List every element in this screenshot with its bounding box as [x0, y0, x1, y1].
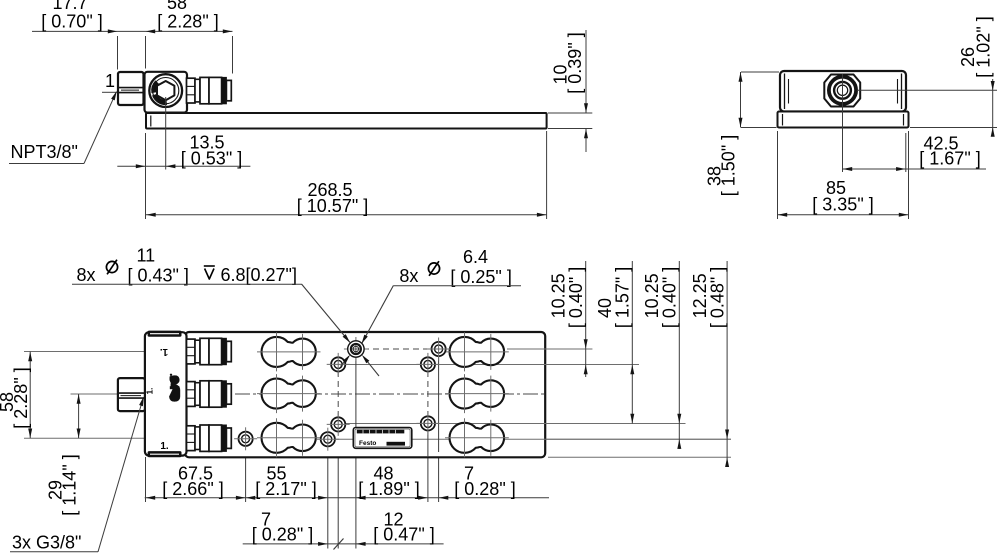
svg-text:[ 1.02" ]: [ 1.02" ] [974, 16, 994, 77]
svg-text:NPT3/8": NPT3/8" [11, 142, 78, 162]
svg-text:8x: 8x [399, 266, 418, 286]
svg-text:[ 1.57" ]: [ 1.57" ] [613, 267, 633, 328]
svg-text:6.8[0.27"]: 6.8[0.27"] [221, 265, 297, 285]
svg-text:[ 1.50" ]: [ 1.50" ] [719, 135, 739, 196]
svg-text:1.: 1. [146, 388, 155, 395]
svg-text:11: 11 [137, 246, 156, 266]
svg-text:[ 0.70" ]: [ 0.70" ] [41, 12, 102, 32]
svg-text:1.: 1. [160, 346, 169, 357]
svg-text:[ 0.25" ]: [ 0.25" ] [450, 267, 511, 287]
svg-text:[ 2.28" ]: [ 2.28" ] [11, 367, 31, 428]
svg-text:[ 0.28" ]: [ 0.28" ] [454, 479, 515, 499]
svg-text:[ 2.66" ]: [ 2.66" ] [162, 479, 223, 499]
svg-text:8x: 8x [77, 265, 96, 285]
svg-text:[ 0.43" ]: [ 0.43" ] [128, 266, 189, 286]
svg-text:[ 2.17" ]: [ 2.17" ] [255, 479, 316, 499]
svg-text:[ 3.35" ]: [ 3.35" ] [812, 195, 873, 215]
svg-text:6.4: 6.4 [463, 247, 488, 267]
svg-text:[ 0.53" ]: [ 0.53" ] [181, 148, 242, 168]
svg-text:[ 1.67" ]: [ 1.67" ] [919, 149, 980, 169]
svg-text:[ 0.48" ]: [ 0.48" ] [708, 267, 728, 328]
svg-text:[ 2.28" ]: [ 2.28" ] [157, 12, 218, 32]
svg-text:[ 1.89" ]: [ 1.89" ] [358, 479, 419, 499]
svg-text:[ 0.40" ]: [ 0.40" ] [660, 267, 680, 328]
svg-text:1: 1 [105, 71, 115, 91]
svg-text:[ 0.47" ]: [ 0.47" ] [373, 524, 434, 544]
svg-text:[ 0.28" ]: [ 0.28" ] [252, 524, 313, 544]
svg-text:[ 1.14" ]: [ 1.14" ] [60, 454, 80, 515]
svg-text:[ 10.57" ]: [ 10.57" ] [297, 196, 368, 216]
svg-text:Festo: Festo [359, 440, 376, 447]
svg-text:[ 0.39" ]: [ 0.39" ] [565, 32, 585, 93]
svg-text:[ 0.40" ]: [ 0.40" ] [566, 267, 586, 328]
svg-text:1.: 1. [160, 441, 169, 452]
svg-text:3x G3/8": 3x G3/8" [12, 533, 81, 553]
